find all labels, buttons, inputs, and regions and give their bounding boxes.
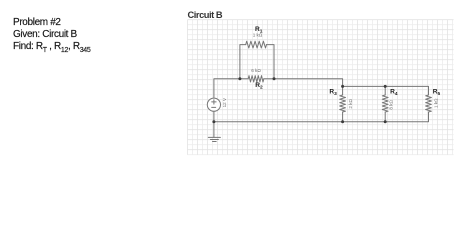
wire: R4 bottom lead: [384, 112, 386, 122]
node: R3 bottom: [341, 120, 344, 123]
node: R4 top: [384, 85, 387, 88]
node: R4 bottom: [384, 120, 387, 123]
grid major lines (decorative): [188, 20, 454, 155]
wire: source top lead up to main line: [214, 79, 240, 98]
resistor R2: [248, 76, 264, 82]
resistor R1: [246, 41, 267, 48]
wire: R5 bottom lead and bottom bus back to source: [214, 112, 429, 122]
svg-text:8 kΩ: 8 kΩ: [388, 99, 393, 109]
node: right junction of R1/R2: [273, 77, 276, 80]
minus sign: [212, 106, 216, 108]
wire: R3 top lead: [342, 86, 344, 95]
svg-text:2 kΩ: 2 kΩ: [348, 98, 353, 108]
chart title: [188, 10, 223, 20]
resistor R5: [426, 95, 432, 112]
wire: R1 right lead down to right node: [267, 45, 275, 79]
wire: R4 top lead: [384, 86, 386, 95]
ground: [208, 136, 220, 138]
plus sign: [212, 101, 216, 103]
node: R3 top: [341, 85, 344, 88]
svg-text:1 kΩ: 1 kΩ: [433, 98, 438, 108]
problem statement text: [13, 17, 90, 57]
wire: source bottom lead to ground: [213, 111, 215, 137]
svg-text:1 kΩ: 1 kΩ: [253, 33, 263, 38]
wire: top bus to R5: [343, 86, 429, 95]
svg-text:12 V: 12 V: [222, 97, 227, 107]
wire: R2 left lead: [240, 78, 248, 80]
svg-text:6 kΩ: 6 kΩ: [251, 68, 261, 73]
grid minor lines (decorative): [188, 20, 454, 155]
resistor R4: [382, 95, 388, 112]
node: source bottom junction: [212, 120, 215, 123]
wire: R2 right lead and main line to step corner: [264, 79, 343, 87]
voltage source V1: [207, 98, 220, 111]
resistor R3: [340, 95, 346, 112]
node: left junction of R1/R2: [238, 77, 241, 80]
wire: R3 bottom lead: [342, 112, 344, 122]
wire: left node up to R1 branch: [240, 45, 246, 79]
